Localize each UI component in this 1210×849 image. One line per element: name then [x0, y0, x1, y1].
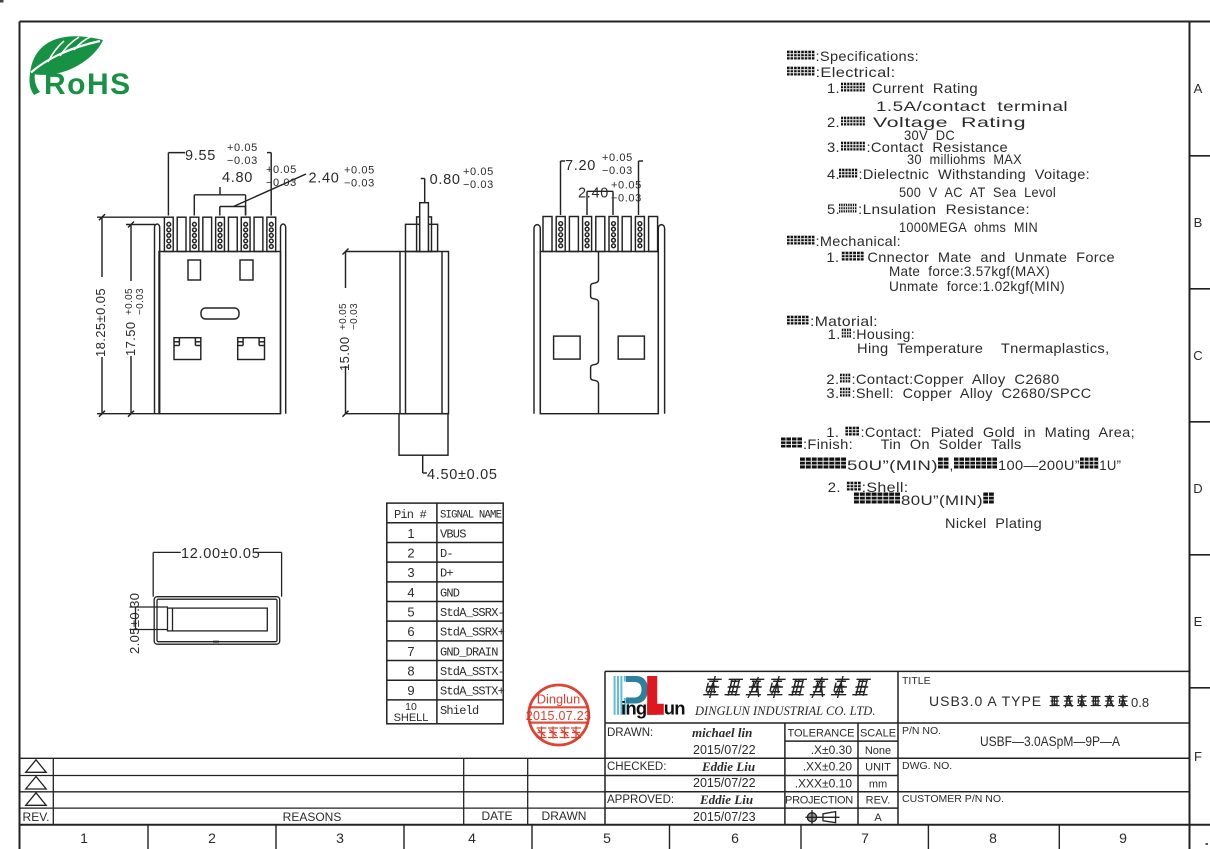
svg-text:CUSTOMER P/N NO.: CUSTOMER P/N NO. [902, 793, 1004, 805]
svg-text:DRAWN: DRAWN [542, 809, 587, 823]
svg-text:5: 5 [603, 830, 611, 846]
svg-text:6: 6 [407, 624, 414, 639]
svg-text:2.: 2. [828, 479, 841, 495]
svg-text::Dielectnic Withstanding Voita: :Dielectnic Withstanding Voitage: [859, 166, 1091, 182]
svg-text:REASONS: REASONS [283, 810, 342, 824]
svg-text::Lnsulation Resistance:: :Lnsulation Resistance: [858, 201, 1030, 217]
svg-text:30 milliohms MAX: 30 milliohms MAX [907, 151, 1022, 167]
svg-text:6: 6 [731, 830, 739, 846]
svg-text:E: E [1194, 614, 1203, 629]
svg-text:.XX±0.20: .XX±0.20 [803, 760, 853, 774]
svg-text:2.40: 2.40 [309, 171, 340, 187]
svg-text:Current Rating: Current Rating [872, 80, 978, 96]
svg-text:−0.03: −0.03 [227, 155, 258, 167]
svg-text:StdA_SSRX+: StdA_SSRX+ [440, 626, 505, 640]
svg-text:mm: mm [869, 779, 887, 791]
svg-text:2: 2 [407, 545, 414, 560]
svg-text:1: 1 [80, 830, 88, 846]
svg-text:3: 3 [407, 565, 414, 580]
svg-text::Finish:: :Finish: [803, 436, 853, 452]
svg-text:un: un [664, 698, 686, 719]
svg-text:Pin #: Pin # [394, 508, 427, 522]
svg-text:C: C [1193, 348, 1202, 363]
svg-text::Specifications:: :Specifications: [816, 48, 920, 64]
svg-text:B: B [1194, 215, 1203, 230]
svg-text:3.: 3. [827, 139, 840, 155]
svg-text:Eddie Liu: Eddie Liu [699, 792, 753, 807]
svg-text:2.40: 2.40 [578, 186, 609, 202]
svg-text:+0.05: +0.05 [227, 142, 258, 154]
svg-text:Hing Temperature Tnermaplasti: Hing Temperature Tnermaplastics, [857, 340, 1110, 356]
svg-text:USBF—3.0ASpM—9P—A: USBF—3.0ASpM—9P—A [980, 734, 1120, 749]
svg-text:0.80: 0.80 [430, 172, 461, 188]
svg-text:VBUS: VBUS [440, 527, 466, 541]
svg-text:0.8: 0.8 [1131, 695, 1149, 710]
svg-text:7: 7 [407, 644, 414, 659]
svg-text:.XXX±0.10: .XXX±0.10 [795, 777, 853, 791]
svg-text:.X±0.30: .X±0.30 [811, 743, 853, 757]
svg-text:P/N NO.: P/N NO. [902, 725, 941, 737]
svg-text:12.00±0.05: 12.00±0.05 [181, 546, 260, 562]
svg-text:StdA_SSTX-: StdA_SSTX- [440, 665, 504, 679]
svg-text:D: D [1193, 481, 1202, 496]
svg-text:D-: D- [440, 547, 453, 561]
svg-text:−0.03: −0.03 [344, 178, 375, 190]
svg-text:D+: D+ [440, 567, 453, 581]
svg-text:Unmate force:1.02kgf(MIN): Unmate force:1.02kgf(MIN) [889, 278, 1065, 294]
svg-text:17.50: 17.50 [123, 321, 138, 356]
svg-text:ing: ing [621, 698, 647, 719]
svg-text:F: F [1194, 749, 1202, 764]
svg-text:RoHS: RoHS [44, 68, 132, 101]
svg-text:−0.03: −0.03 [602, 165, 633, 177]
svg-text:REV.: REV. [866, 795, 891, 807]
svg-text:1000MEGA ohms MIN: 1000MEGA ohms MIN [899, 219, 1038, 235]
svg-text:8: 8 [989, 830, 997, 846]
svg-text:1.: 1. [826, 249, 839, 265]
svg-text:DRAWN:: DRAWN: [607, 727, 653, 739]
svg-text:SHELL: SHELL [394, 712, 429, 724]
svg-text::Electrical:: :Electrical: [816, 64, 896, 80]
svg-text:3.: 3. [826, 385, 839, 401]
svg-text:−0.03: −0.03 [349, 303, 360, 330]
svg-text:1: 1 [407, 526, 414, 541]
svg-text:18.25±0.05: 18.25±0.05 [93, 288, 108, 357]
svg-text:1.5A/contact terminal: 1.5A/contact terminal [876, 98, 1068, 114]
svg-text:Mate force:3.57kgf(MAX): Mate force:3.57kgf(MAX) [889, 263, 1050, 279]
svg-text:1.: 1. [828, 326, 841, 342]
svg-text:+0.05: +0.05 [124, 288, 135, 315]
svg-text:9.55: 9.55 [185, 148, 216, 164]
svg-text:A: A [874, 812, 882, 824]
svg-text:1.: 1. [827, 80, 840, 96]
svg-text:−0.03: −0.03 [463, 179, 494, 191]
svg-text:Tin On Solder Talls: Tin On Solder Talls [881, 436, 1022, 452]
svg-text:4.: 4. [827, 166, 840, 182]
svg-text:2015/07/22: 2015/07/22 [693, 776, 756, 790]
svg-text:9: 9 [1119, 830, 1127, 846]
svg-text:−0.03: −0.03 [611, 193, 642, 205]
svg-text:StdA_SSTX+: StdA_SSTX+ [440, 685, 505, 699]
svg-text:3: 3 [336, 830, 344, 846]
svg-text:Eddie Liu: Eddie Liu [701, 759, 755, 774]
svg-text:DWG. NO.: DWG. NO. [902, 760, 952, 772]
svg-text:2.: 2. [827, 114, 840, 130]
svg-text:+0.05: +0.05 [344, 165, 375, 177]
svg-text:8: 8 [407, 664, 414, 679]
svg-text:7: 7 [861, 830, 869, 846]
svg-text:PROJECTION: PROJECTION [785, 795, 853, 807]
svg-text:4.80: 4.80 [222, 170, 253, 186]
svg-text:SIGNAL NAME: SIGNAL NAME [440, 510, 502, 522]
svg-text:2015/07/23: 2015/07/23 [693, 810, 756, 824]
svg-text:,: , [950, 457, 954, 473]
svg-text:2015.07.23: 2015.07.23 [526, 709, 592, 723]
svg-text:4.50±0.05: 4.50±0.05 [427, 467, 498, 483]
svg-text:−0.03: −0.03 [266, 177, 297, 189]
svg-text:REV.: REV. [23, 810, 50, 824]
svg-text:APPROVED:: APPROVED: [607, 794, 674, 806]
svg-text:−0.03: −0.03 [135, 288, 146, 315]
svg-text:+0.05: +0.05 [463, 166, 494, 178]
svg-text:5.: 5. [827, 201, 840, 217]
svg-text:TITLE: TITLE [902, 675, 931, 687]
svg-text:TOLERANCE: TOLERANCE [787, 728, 854, 740]
svg-text:UNIT: UNIT [865, 762, 891, 774]
svg-text:Dinglun: Dinglun [537, 692, 580, 707]
svg-text:None: None [865, 745, 891, 757]
svg-text:GND: GND [440, 586, 460, 600]
svg-text:DINGLUN INDUSTRIAL CO. LTD.: DINGLUN INDUSTRIAL CO. LTD. [694, 704, 875, 718]
svg-text:StdA_SSRX-: StdA_SSRX- [440, 606, 504, 620]
svg-text:+0.05: +0.05 [602, 152, 633, 164]
svg-text:+0.05: +0.05 [611, 180, 642, 192]
svg-text:100—200U”: 100—200U” [998, 457, 1080, 473]
svg-text:5: 5 [407, 605, 414, 620]
svg-text:USB3.0 A TYPE: USB3.0 A TYPE [929, 693, 1042, 709]
svg-text:2015/07/22: 2015/07/22 [693, 743, 756, 757]
svg-text:80U”(MIN): 80U”(MIN) [901, 492, 983, 508]
svg-text:+0.05: +0.05 [266, 164, 297, 176]
svg-text:SCALE: SCALE [860, 728, 896, 740]
svg-text:1U”: 1U” [1099, 457, 1121, 473]
svg-text::Shell: Copper Alloy C2680/SPC: :Shell: Copper Alloy C2680/SPCC [852, 385, 1092, 401]
svg-text:A: A [1194, 81, 1203, 96]
svg-text:DATE: DATE [481, 809, 512, 823]
svg-text:Shield: Shield [440, 704, 479, 718]
svg-text:4: 4 [468, 830, 476, 846]
svg-text:+0.05: +0.05 [338, 303, 349, 330]
svg-text:500 V AC AT Sea Levol: 500 V AC AT Sea Levol [899, 184, 1056, 200]
svg-text::Mechanical:: :Mechanical: [816, 233, 902, 249]
svg-text:50U”(MIN): 50U”(MIN) [847, 457, 938, 473]
svg-text:michael lin: michael lin [692, 725, 752, 740]
svg-text:15.00: 15.00 [337, 336, 352, 371]
svg-text:7.20: 7.20 [565, 158, 596, 174]
svg-text:2: 2 [208, 830, 216, 846]
svg-text:2.05±0.30: 2.05±0.30 [127, 593, 142, 654]
svg-text:Nickel Plating: Nickel Plating [945, 515, 1042, 531]
svg-text:9: 9 [407, 683, 414, 698]
svg-text:CHECKED:: CHECKED: [607, 761, 666, 773]
svg-text:4: 4 [407, 585, 414, 600]
svg-text:GND_DRAIN: GND_DRAIN [440, 645, 498, 659]
